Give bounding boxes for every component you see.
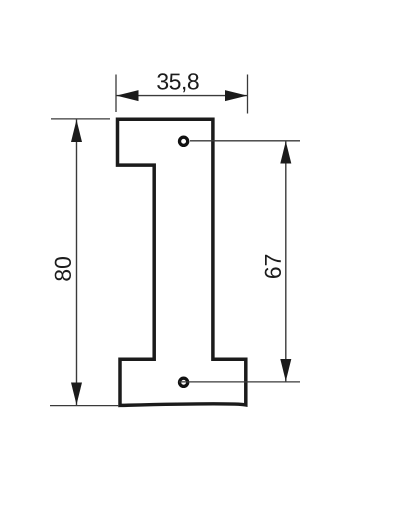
dim 80 extension line top bbox=[51, 118, 110, 120]
dim 67 line bbox=[285, 142, 287, 382]
leader line from bottom hole bbox=[179, 381, 300, 383]
dim 35,8 arrow left bbox=[116, 90, 138, 101]
dim 67 label bbox=[265, 255, 281, 278]
dim 80 arrow up bbox=[71, 120, 82, 142]
dim 35,8 label bbox=[157, 73, 198, 92]
dim 35,8 extension line right bbox=[247, 75, 249, 114]
dim 35,8 arrow right bbox=[225, 90, 247, 101]
numeral 1 outline bbox=[118, 119, 246, 405]
hole top bbox=[180, 137, 188, 145]
dim 80 arrow down bbox=[71, 383, 82, 405]
leader line from top hole bbox=[190, 140, 300, 142]
dim 67 arrow down bbox=[280, 359, 291, 381]
dim 35,8 extension line left bbox=[115, 75, 117, 113]
dim 80 extension line bottom bbox=[50, 405, 119, 407]
dim 35,8 line bbox=[116, 95, 248, 97]
hole bottom bbox=[180, 378, 188, 386]
dim 67 arrow up bbox=[280, 141, 291, 163]
dim 80 label bbox=[55, 257, 71, 281]
dim 80 line bbox=[76, 120, 78, 406]
